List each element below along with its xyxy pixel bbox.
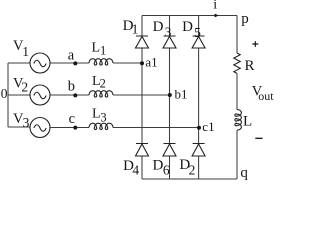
diode D2 xyxy=(192,144,205,157)
svg-text:4: 4 xyxy=(132,163,139,178)
svg-text:1: 1 xyxy=(100,43,106,57)
source V3 xyxy=(30,118,50,138)
wire row b: source to coil xyxy=(50,94,89,96)
svg-text:D: D xyxy=(153,19,164,35)
wire row b: coil to bus2 xyxy=(113,94,170,96)
svg-text:i: i xyxy=(213,0,217,13)
node a xyxy=(73,61,77,65)
svg-text:0: 0 xyxy=(1,86,8,101)
svg-text:a1: a1 xyxy=(145,55,157,70)
wire neutral vertical left xyxy=(7,63,9,127)
inductor L3 xyxy=(89,123,113,129)
svg-text:L: L xyxy=(243,114,252,130)
svg-text:D: D xyxy=(153,157,164,173)
plus sign xyxy=(252,41,258,47)
wire row b left stub xyxy=(8,94,30,96)
node a1 xyxy=(140,61,144,65)
minus sign xyxy=(255,137,262,139)
svg-text:2: 2 xyxy=(189,162,196,177)
svg-text:p: p xyxy=(241,11,249,27)
svg-text:b: b xyxy=(68,79,75,95)
inductor L1 xyxy=(89,59,113,65)
svg-text:6: 6 xyxy=(163,163,170,178)
svg-text:5: 5 xyxy=(194,25,201,40)
svg-text:1: 1 xyxy=(132,21,139,36)
svg-text:3: 3 xyxy=(165,24,172,39)
svg-text:L: L xyxy=(92,107,101,122)
wire row a: source to node a to coil xyxy=(50,62,89,64)
svg-text:1: 1 xyxy=(22,44,29,59)
node b xyxy=(73,93,77,97)
diode D3 xyxy=(163,36,176,48)
svg-text:c1: c1 xyxy=(202,119,214,134)
wire row a left stub xyxy=(8,62,30,64)
node c1 xyxy=(197,126,201,130)
source V1 xyxy=(30,53,50,73)
svg-text:c: c xyxy=(69,111,75,127)
wire row c left stub xyxy=(8,126,30,128)
source V2 xyxy=(30,85,50,105)
svg-text:out: out xyxy=(258,89,274,103)
inductor L2 xyxy=(89,91,113,97)
svg-text:3: 3 xyxy=(100,110,106,124)
wire row c: coil to bus3 xyxy=(113,127,199,129)
svg-text:2: 2 xyxy=(21,79,28,94)
diode D4 xyxy=(136,144,149,157)
svg-text:q: q xyxy=(240,165,248,181)
node b1 xyxy=(168,93,172,97)
wire row c: source to coil xyxy=(50,127,89,129)
inductor L (output) xyxy=(235,110,241,131)
diode D1 xyxy=(136,36,149,48)
svg-text:R: R xyxy=(245,58,255,74)
wire right rail xyxy=(236,16,238,180)
diode D6 xyxy=(163,144,176,157)
wire bus2 vertical xyxy=(169,16,171,180)
diode D5 xyxy=(192,36,205,48)
svg-text:D: D xyxy=(182,19,193,35)
node c xyxy=(73,126,77,130)
svg-text:a: a xyxy=(68,48,75,64)
svg-text:L: L xyxy=(92,41,101,56)
svg-text:3: 3 xyxy=(23,115,30,130)
wire bottom rail xyxy=(142,178,237,180)
current arrow i xyxy=(215,14,219,18)
wire bus3 vertical xyxy=(198,16,200,180)
svg-text:b1: b1 xyxy=(175,87,188,102)
wire top rail xyxy=(142,15,237,17)
svg-text:2: 2 xyxy=(100,76,106,90)
resistor R xyxy=(234,53,240,73)
wire bus1 vertical xyxy=(141,16,143,180)
wire row a: coil to bus1 xyxy=(113,62,142,64)
